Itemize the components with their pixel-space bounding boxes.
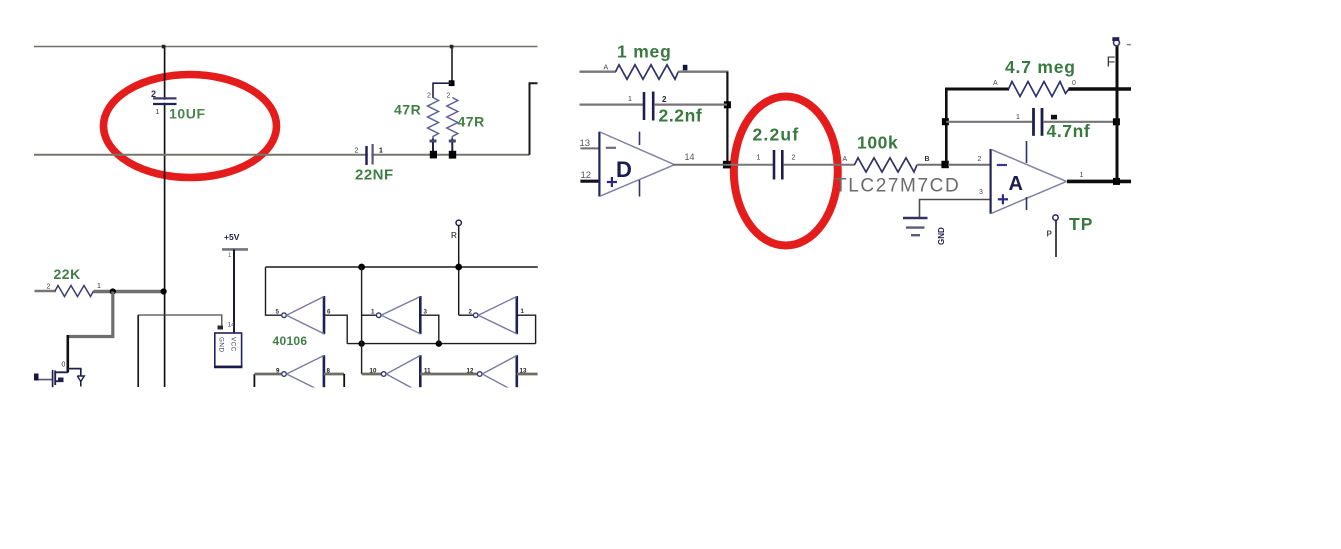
pin B blob of 1meg	[683, 65, 688, 71]
svg-text:1: 1	[1016, 114, 1020, 121]
drain contact	[55, 371, 68, 373]
svg-text:F: F	[1107, 55, 1116, 71]
svg-text:1: 1	[156, 109, 160, 116]
svg-text:22K: 22K	[54, 266, 81, 282]
wire 4.7nf left lead	[946, 121, 1032, 123]
capacitor 2.2nf right plate	[652, 92, 655, 121]
power stubs	[1026, 141, 1028, 163]
capacitor C 22NF right plate	[372, 144, 374, 165]
test point stem	[1055, 220, 1057, 257]
capacitor 2.2nf left plate	[643, 92, 646, 120]
channel bar	[54, 371, 56, 386]
svg-text:12: 12	[581, 170, 592, 181]
wire vertical feed G2/G5	[361, 267, 363, 374]
wire transistor drain vertical	[67, 335, 70, 373]
wire vertical V1	[164, 47, 166, 388]
svg-text:D: D	[616, 157, 632, 182]
svg-text:40106: 40106	[273, 334, 308, 348]
node junction at 47R top	[449, 80, 455, 86]
inverter G2	[371, 296, 428, 334]
node top bus / vertical V1 tick	[162, 45, 166, 49]
svg-text:1: 1	[371, 309, 375, 316]
capacitor 4.7nf right plate	[1041, 108, 1044, 136]
minus	[997, 164, 1007, 166]
terminal T1 top of inverter column	[456, 220, 461, 225]
svg-text:2.2nf: 2.2nf	[659, 106, 703, 126]
wire G2 input stub	[362, 314, 376, 316]
wire branch down-left to transistor	[68, 292, 113, 337]
wire 1meg left lead	[580, 70, 617, 72]
wire bottom row segment 2	[324, 373, 344, 376]
pin 7 pad of IC	[218, 326, 224, 330]
power stubs	[639, 132, 641, 145]
svg-text:2: 2	[427, 93, 431, 100]
resistor 47R right body	[447, 98, 458, 140]
wire top bus	[34, 46, 538, 48]
pin 1 pad of left 47R	[430, 140, 437, 143]
inverter G4	[276, 355, 331, 392]
capacitor C 22NF left plate	[365, 146, 367, 165]
svg-text:1: 1	[379, 148, 383, 155]
svg-text:A: A	[993, 80, 998, 87]
svg-text:GND: GND	[218, 337, 225, 353]
resistor 100k body	[855, 158, 918, 172]
capacitor 4.7nf gap	[1035, 120, 1041, 125]
svg-text:2: 2	[447, 93, 451, 100]
node dot lower bus G2out	[436, 340, 442, 346]
svg-text:TP: TP	[1069, 214, 1093, 234]
plus	[998, 198, 1008, 200]
svg-text:3: 3	[979, 189, 983, 196]
svg-text:2: 2	[47, 284, 51, 291]
svg-text:12: 12	[467, 368, 474, 375]
wire right rail	[1116, 46, 1119, 181]
capacitor C 10UF gap	[162, 100, 167, 103]
svg-text:1: 1	[521, 308, 525, 315]
wire to 2.2uf	[727, 164, 773, 166]
power +5V bar	[222, 248, 248, 251]
wire 47R branch vertical from top bus	[451, 47, 453, 85]
wire L-bend to left 47R	[433, 83, 452, 98]
body diode branch	[68, 369, 81, 376]
wire G2 output	[420, 315, 439, 343]
op-amp A	[920, 141, 1084, 218]
wire G1 output	[324, 315, 347, 343]
wire lower bus	[34, 154, 530, 156]
svg-text:14: 14	[228, 322, 236, 329]
svg-text:2.2uf: 2.2uf	[753, 125, 800, 145]
svg-text:1 meg: 1 meg	[617, 42, 672, 62]
plus	[607, 181, 617, 183]
wire op-amp D output	[673, 164, 727, 166]
wire right bracket of lower bus	[530, 83, 538, 155]
node dot top bus G2	[358, 264, 365, 271]
source contact with arrow	[55, 380, 63, 382]
gate lead	[36, 379, 53, 381]
minus	[606, 147, 616, 149]
op-amp D	[580, 132, 695, 197]
wire 2.2nf left lead	[580, 103, 644, 105]
node junction left 47R to lower bus	[430, 151, 437, 159]
wire feedback right vertical	[726, 72, 728, 165]
red highlight ellipse left	[104, 75, 277, 178]
wire 2.2uf right lead	[783, 164, 855, 166]
wire bottom row segment 4	[420, 373, 477, 376]
svg-text:13: 13	[580, 138, 591, 149]
wire bottom row right stub1	[343, 374, 345, 387]
svg-text:2: 2	[792, 155, 796, 162]
wire 22K to junctions	[94, 290, 166, 293]
node junction 2.2nf right	[724, 101, 731, 108]
gate pin blob 2	[34, 374, 39, 381]
node dot lower bus G2col	[358, 340, 364, 346]
svg-text:VCC: VCC	[230, 337, 237, 352]
inverter G1	[276, 296, 332, 334]
node junction 100k/opampA	[941, 161, 948, 168]
wire right 47R bottom stub	[451, 139, 453, 155]
node junction output on rail	[1113, 178, 1120, 185]
resistor 4.7meg body	[1009, 82, 1069, 97]
wire +5V to IC pin14	[233, 249, 235, 333]
svg-text:2: 2	[662, 95, 667, 104]
svg-text:1: 1	[97, 283, 101, 290]
svg-text:47R: 47R	[394, 102, 421, 118]
node junction output	[723, 161, 731, 169]
resistor 47R left body	[428, 98, 439, 140]
svg-text:10: 10	[370, 368, 377, 375]
resistor 1meg body	[616, 65, 679, 80]
wire bottom row left stub	[253, 374, 255, 387]
svg-text:0: 0	[62, 362, 66, 369]
wire 4.7nf right lead	[1043, 121, 1116, 123]
wire left 47R bottom stub	[432, 139, 434, 155]
terminal T2 top	[1114, 40, 1120, 46]
plus input wire	[920, 200, 991, 219]
inverter G3	[469, 296, 525, 334]
wire 4.7meg right lead bar	[1069, 87, 1132, 91]
wire vertical x138	[137, 315, 139, 387]
gate bar	[52, 370, 54, 387]
ground GND symbol	[903, 218, 928, 235]
svg-text:A: A	[843, 156, 848, 163]
wire G1 input feed	[266, 267, 282, 315]
wire T1 down	[458, 226, 460, 316]
svg-text:22NF: 22NF	[355, 167, 394, 184]
svg-text:0: 0	[1072, 80, 1076, 87]
wire inverter top bus	[266, 266, 538, 268]
resistor 22K body	[55, 286, 94, 297]
svg-text:2: 2	[151, 89, 156, 99]
svg-text:1: 1	[628, 96, 632, 103]
wire G3 output	[517, 315, 536, 343]
svg-text:14: 14	[685, 152, 695, 162]
wire bottom row segment 5	[517, 373, 538, 376]
wire bottom row segment 3	[362, 373, 382, 376]
capacitor C 22NF gap	[368, 153, 372, 157]
wire 1meg right lead	[678, 70, 729, 72]
pin 2 blob of 4.7nf	[1051, 115, 1057, 120]
capacitor 2.2uf left plate	[773, 150, 776, 180]
wire 2.2nf right lead	[654, 103, 727, 105]
IC U1 power box	[214, 333, 242, 367]
svg-text:4.7 meg: 4.7 meg	[1005, 57, 1076, 77]
test point TP terminal	[1053, 215, 1058, 220]
svg-text:3: 3	[424, 309, 428, 316]
svg-text:A: A	[1009, 173, 1023, 195]
svg-text:TLC27M7CD: TLC27M7CD	[835, 176, 960, 197]
svg-text:+5V: +5V	[224, 232, 240, 242]
svg-text:2: 2	[978, 156, 982, 163]
wire thin mid horizontal to IC	[138, 315, 222, 327]
base	[598, 132, 600, 197]
svg-text:1: 1	[228, 253, 232, 259]
svg-text:1: 1	[757, 155, 761, 162]
node dot top bus G3	[455, 264, 462, 271]
capacitor 2.2uf right plate	[781, 150, 784, 180]
node junction A	[110, 288, 116, 294]
wire op-amp A output bar	[1067, 180, 1131, 184]
base	[989, 149, 991, 214]
slopes	[991, 149, 1066, 181]
input wire 13	[580, 147, 599, 149]
input wire 12	[580, 180, 599, 183]
node junction 4.7nf right on rail	[1113, 118, 1120, 125]
red highlight ellipse right	[734, 97, 838, 246]
capacitor C 10UF top plate	[153, 97, 177, 99]
inverter G6	[467, 355, 527, 392]
svg-text:100k: 100k	[857, 133, 898, 153]
inverter G5	[370, 355, 432, 392]
node junction 4.7nf left	[942, 118, 949, 125]
capacitor 4.7nf left plate	[1032, 108, 1035, 136]
svg-text:R: R	[451, 231, 457, 240]
svg-text:1: 1	[1080, 172, 1084, 179]
svg-text:GND: GND	[937, 227, 946, 245]
wire 4.7meg left lead	[945, 88, 1009, 91]
node junction right 47R to lower bus	[449, 151, 456, 159]
wire inverter lower bus	[347, 343, 535, 345]
node top bus / 47R branch tick	[450, 45, 454, 49]
pin 1 pad of right 47R	[449, 140, 456, 143]
svg-text:2: 2	[355, 148, 359, 155]
svg-text:2: 2	[469, 309, 473, 316]
node junction B on V1	[161, 288, 167, 294]
svg-text:P: P	[1047, 230, 1053, 239]
svg-text:10UF: 10UF	[169, 106, 206, 122]
minus input wire	[948, 164, 991, 166]
wire bottom row segment 1	[254, 373, 281, 376]
slopes	[600, 132, 675, 165]
svg-text:B: B	[925, 156, 930, 163]
capacitor 2.2uf gap	[775, 163, 781, 167]
svg-text:9: 9	[276, 368, 280, 375]
svg-text:47R: 47R	[458, 114, 485, 130]
wire feedback left vertical	[945, 89, 948, 165]
capacitor 2.2nf gap	[645, 103, 651, 107]
capacitor C 10UF bottom plate	[153, 103, 177, 105]
wire 100k right lead	[917, 164, 946, 166]
svg-text:4.7nf: 4.7nf	[1047, 121, 1091, 141]
wire G3 input stub	[459, 314, 473, 316]
svg-text:6: 6	[327, 309, 331, 316]
svg-text:5: 5	[276, 309, 280, 316]
wire 22K left lead	[35, 290, 57, 293]
